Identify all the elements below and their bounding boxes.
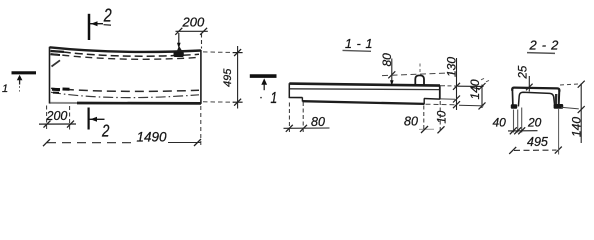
svg-text:200: 200 [46, 109, 68, 123]
dimension 140 (2-2): line and ticks [580, 84, 582, 144]
top reinforcement dashed line A [51, 51, 199, 57]
svg-text:130: 130 [445, 57, 459, 77]
dimension 80 bottom-right: line and ticks [419, 128, 434, 130]
dimension 200 bottom-left: extensions [46, 106, 48, 132]
svg-text:200: 200 [182, 15, 205, 30]
svg-text:25: 25 [518, 65, 530, 79]
deck underside and inner faces [518, 92, 554, 106]
svg-text:140: 140 [570, 117, 584, 137]
section mark 1 left: arrow [17, 75, 23, 81]
section mark 1 left: bar [12, 71, 37, 74]
bottom axis dash-dot line [51, 92, 199, 97]
svg-text:1 - 1: 1 - 1 [345, 37, 373, 51]
left wall outer face [511, 90, 514, 107]
svg-text:2: 2 [103, 5, 112, 26]
right wall outer face [558, 90, 561, 105]
svg-text:40: 40 [493, 116, 507, 130]
lifting loop (elevation, dark blob) [174, 52, 184, 57]
svg-text:1: 1 [2, 83, 8, 95]
section mark 2 bottom: bar [87, 108, 89, 130]
dimension 495 (elevation): extensions [203, 51, 234, 54]
extensions to right dim lines [441, 85, 456, 87]
section mark 1 right: arrow [261, 78, 267, 84]
dimension 200 bottom-left: line and ticks [39, 123, 76, 125]
dimension 80 bottom-left: extensions [288, 103, 290, 133]
dimension line B of 1-1 (140) [481, 85, 483, 109]
svg-text:80: 80 [404, 115, 418, 129]
dimension 25: leader and tick [528, 76, 530, 92]
dimension 200 top: line and ticks [176, 30, 208, 32]
beam elevation outline [50, 47, 202, 104]
section 1-1 plank profile [289, 83, 440, 104]
dimension 1490: line and ticks [47, 142, 134, 144]
dimension 495 (2-2): right extension [558, 109, 560, 155]
dimension 495 (elevation): line and ticks [237, 46, 239, 109]
dark dash chunks top-left [51, 50, 65, 53]
bottom reinforcement dashed line [51, 88, 199, 91]
dimension 200 top: left extension with arrow to loop [178, 33, 180, 43]
small weld scribble [52, 60, 61, 66]
svg-text:2 - 2: 2 - 2 [529, 37, 560, 52]
dimension line A of 1-1 (130/10) [456, 58, 458, 110]
loop top reference dashed line [382, 73, 453, 76]
anchor marks bottom-left [52, 89, 70, 93]
dimension 80 bottom-right: extensions [423, 106, 425, 132]
svg-text:2: 2 [101, 122, 110, 141]
dimensions 40/20: extensions [513, 110, 515, 133]
top reinforcement dashed line B [51, 54, 199, 59]
deck top edge [512, 88, 559, 92]
left wall foot (dark) [511, 104, 517, 109]
section mark 2 top: arrow [90, 23, 103, 25]
svg-text:495: 495 [222, 68, 234, 87]
svg-text:140: 140 [468, 79, 482, 99]
section mark 1 right: bar [250, 74, 277, 78]
svg-text:80: 80 [311, 115, 325, 129]
right wall inner shading [555, 94, 558, 104]
svg-text:1490: 1490 [137, 130, 168, 145]
dimension 200 top: right dashed extension [201, 34, 203, 49]
dimension 80 (loop height): leader, tick, arrow [391, 59, 393, 85]
dimension 80 bottom-left: line and ticks [284, 127, 330, 129]
svg-text:10: 10 [437, 110, 449, 123]
section mark 2 bottom: arrow [90, 118, 105, 120]
section 2-2 channel profile [512, 88, 559, 107]
svg-text:495: 495 [527, 135, 548, 149]
dimension 140 (2-2): extensions [560, 84, 579, 85]
svg-text:1: 1 [271, 88, 278, 106]
dimensions 40/20: line and ticks [508, 130, 538, 132]
section mark 2 top: bar [88, 14, 91, 40]
dimension 495 (2-2): line and ticks [514, 149, 557, 151]
right wall foot (dark) [554, 104, 564, 109]
dimension 1490: right extension [200, 106, 202, 147]
lifting loop (1-1 section) [415, 75, 424, 85]
svg-text:20: 20 [527, 116, 542, 130]
loop centerline dashes [419, 64, 421, 76]
